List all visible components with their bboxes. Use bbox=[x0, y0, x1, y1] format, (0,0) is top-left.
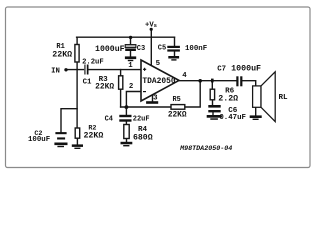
wire C3 top lead bbox=[130, 37, 132, 45]
resistor R2 bbox=[75, 128, 80, 138]
wire R3 top lead bbox=[120, 70, 122, 76]
svg-text:100nF: 100nF bbox=[185, 45, 207, 53]
op-amp U1 TDA2050 triangle bbox=[141, 60, 179, 101]
ground at C6 bbox=[207, 115, 222, 118]
wire pin 2 connection bbox=[126, 92, 140, 108]
ground at R4 bbox=[121, 142, 133, 145]
wire R2 ground lead bbox=[76, 138, 78, 144]
resistor R5 bbox=[171, 105, 185, 110]
svg-text:IN: IN bbox=[51, 68, 60, 76]
svg-text:1000uF: 1000uF bbox=[231, 65, 261, 74]
svg-text:680Ω: 680Ω bbox=[133, 134, 153, 143]
svg-text:0.47uF: 0.47uF bbox=[219, 114, 246, 122]
wire top supply rail bbox=[77, 36, 175, 38]
wire C5 bottom stem bbox=[174, 51, 176, 56]
svg-text:R5: R5 bbox=[173, 96, 181, 104]
svg-text:4: 4 bbox=[182, 72, 187, 80]
wire R6 to C6 bbox=[212, 100, 214, 105]
wire R6 top lead bbox=[211, 81, 213, 90]
resistor R1 bbox=[75, 45, 79, 63]
svg-text:100uF: 100uF bbox=[28, 136, 50, 144]
ground at speaker bbox=[250, 115, 262, 118]
resistor R3 bbox=[119, 76, 123, 89]
capacitor C4 bbox=[119, 115, 131, 117]
svg-text:1000uF: 1000uF bbox=[95, 45, 125, 54]
svg-text:22KΩ: 22KΩ bbox=[168, 111, 187, 119]
wire feedback drop to R5 bbox=[185, 81, 200, 107]
resistor R4 bbox=[124, 125, 129, 139]
svg-text:TDA2050: TDA2050 bbox=[142, 77, 175, 86]
wire C6 ground stem bbox=[212, 112, 214, 115]
label minus input bbox=[143, 91, 146, 93]
wire C7 to speaker bbox=[242, 81, 255, 86]
wire C4 to R4 bbox=[125, 122, 127, 125]
node +Vs terminal bbox=[150, 28, 153, 31]
capacitor C1 bbox=[84, 65, 86, 75]
ground at pin 3 bbox=[146, 101, 158, 104]
svg-text:2.2Ω: 2.2Ω bbox=[218, 95, 238, 104]
node output feedback tap bbox=[198, 79, 202, 83]
capacitor C3 bbox=[125, 45, 136, 48]
capacitor C6 bbox=[208, 105, 220, 108]
label plus input bbox=[143, 68, 146, 71]
svg-text:C5: C5 bbox=[158, 44, 166, 52]
svg-text:M98TDA2050-04: M98TDA2050-04 bbox=[179, 145, 232, 153]
wire R3 bottom lead bbox=[120, 89, 122, 107]
ground at C2 bbox=[54, 143, 67, 146]
wire C1 to pin 1 bbox=[89, 69, 141, 71]
svg-text:3: 3 bbox=[153, 95, 158, 103]
svg-text:C3: C3 bbox=[137, 45, 145, 53]
svg-text:+Vs: +Vs bbox=[145, 21, 158, 29]
ground at C3 bbox=[125, 56, 136, 59]
ground at C5 bbox=[168, 56, 179, 59]
node inverting junction at C4 bbox=[125, 105, 129, 109]
svg-text:C7: C7 bbox=[217, 65, 226, 73]
svg-text:5: 5 bbox=[156, 60, 161, 68]
wire C2 top to bias line bbox=[61, 109, 77, 132]
wire IN to C1 bbox=[66, 69, 84, 71]
resistor R6 bbox=[210, 89, 214, 100]
wire C4 top lead bbox=[125, 107, 127, 115]
ground at R2 bbox=[72, 144, 83, 147]
svg-text:1: 1 bbox=[128, 62, 133, 70]
svg-text:22KΩ: 22KΩ bbox=[52, 51, 72, 60]
wire speaker ground stem bbox=[255, 107, 257, 115]
wire bias vertical R1 bottom through IN wire to R2 bbox=[76, 62, 78, 128]
svg-text:C4: C4 bbox=[105, 115, 113, 123]
capacitor C5 bbox=[167, 46, 180, 48]
wire inverting node horizontal bbox=[121, 106, 171, 108]
svg-text:22KΩ: 22KΩ bbox=[95, 83, 114, 92]
wire +Vs stub and pin 5 lead bbox=[150, 31, 152, 66]
wire pin 3 stub bbox=[152, 95, 154, 101]
capacitor C2 bbox=[55, 132, 66, 134]
svg-text:22KΩ: 22KΩ bbox=[83, 132, 103, 141]
node output at R6 bbox=[211, 79, 214, 83]
svg-text:22uF: 22uF bbox=[133, 116, 150, 124]
capacitor C7 bbox=[236, 76, 238, 86]
node rail at C3 bbox=[129, 36, 132, 39]
svg-text:R1: R1 bbox=[56, 43, 64, 51]
wire R1 top lead bbox=[76, 37, 78, 44]
node IN terminal bbox=[64, 68, 67, 71]
wire R4 ground lead bbox=[126, 139, 128, 142]
svg-text:2: 2 bbox=[129, 83, 133, 91]
wire C3 bottom stem bbox=[130, 51, 132, 56]
svg-text:2.2uF: 2.2uF bbox=[82, 58, 104, 66]
svg-text:C1: C1 bbox=[83, 79, 92, 87]
wire output pin 4 to C7 bbox=[179, 80, 236, 82]
wire C5 top lead bbox=[174, 37, 176, 46]
speaker RL bbox=[253, 72, 276, 122]
svg-text:RL: RL bbox=[278, 94, 288, 102]
